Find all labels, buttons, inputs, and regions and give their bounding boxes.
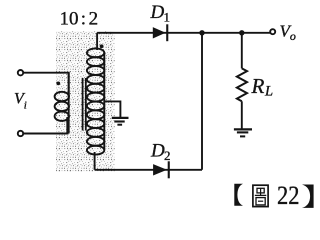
- wire: top input wire from Vi+ terminal to primary: [24, 73, 69, 96]
- svg-text:L: L: [264, 84, 273, 100]
- svg-text:D: D: [150, 2, 165, 23]
- wire: RL branch upper lead: [241, 33, 243, 69]
- wire: bottom rail from secondary to right riser: [95, 169, 202, 171]
- transformer T1 secondary winding: [87, 48, 104, 154]
- terminal Vi- (open circle): [18, 131, 23, 136]
- svg-text:Vi: Vi: [14, 91, 27, 112]
- wire: RL branch lower lead: [241, 101, 243, 128]
- svg-text:10:2: 10:2: [60, 9, 99, 30]
- svg-text:Vo: Vo: [280, 22, 296, 44]
- node A: junction dot D1/D2 outputs: [199, 30, 204, 35]
- svg-text:22: 22: [277, 181, 300, 210]
- wire: right riser joining D2 output to top node: [201, 33, 203, 170]
- terminal Vi+ (open circle): [18, 70, 23, 75]
- transformer T1 primary winding: [55, 73, 69, 134]
- ground (below RL): [234, 129, 252, 136]
- caption bracket right: [302, 185, 314, 208]
- terminal Vo (open circle): [270, 29, 275, 34]
- transformer shaded core region: [56, 31, 115, 172]
- resistor RL: [237, 68, 247, 101]
- center tap wire to ground: [104, 101, 121, 117]
- node B: junction dot RL branch: [239, 30, 244, 35]
- wire: top rail from secondary to Vo terminal: [97, 32, 270, 34]
- diode D1: [153, 24, 169, 41]
- transformer T1 core lines: [83, 78, 86, 131]
- secondary polarity dot: [100, 44, 104, 48]
- diode D2: [153, 161, 170, 178]
- svg-text:1: 1: [164, 10, 171, 25]
- svg-text:D: D: [150, 141, 165, 162]
- wire: secondary bottom lead down to bottom rail: [94, 152, 96, 170]
- primary polarity dot: [56, 82, 60, 86]
- svg-text:R: R: [251, 74, 265, 98]
- ground (center tap): [112, 118, 129, 125]
- svg-text:2: 2: [164, 148, 171, 163]
- caption bracket left: [234, 184, 243, 206]
- caption character 圖: [253, 185, 268, 206]
- wire: bottom input wire from Vi- terminal to primary: [24, 117, 68, 134]
- wire: secondary top lead up to top rail: [96, 33, 98, 50]
